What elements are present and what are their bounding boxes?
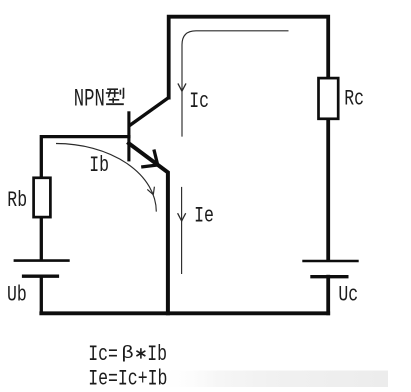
svg-text:Ic=: Ic= — [88, 342, 118, 367]
svg-text:Ie: Ie — [194, 203, 214, 228]
svg-text:β: β — [121, 343, 134, 363]
svg-text:Ie=Ic+Ib: Ie=Ic+Ib — [88, 366, 167, 391]
svg-text:Rc: Rc — [344, 86, 364, 111]
svg-text:Rb: Rb — [7, 188, 27, 213]
svg-text:Ic: Ic — [189, 89, 209, 114]
svg-text:Ib: Ib — [89, 153, 109, 178]
svg-text:Ub: Ub — [7, 282, 27, 307]
svg-text:Uc: Uc — [338, 282, 358, 307]
svg-text:NPN: NPN — [74, 86, 105, 114]
svg-text:Ib: Ib — [147, 342, 167, 367]
